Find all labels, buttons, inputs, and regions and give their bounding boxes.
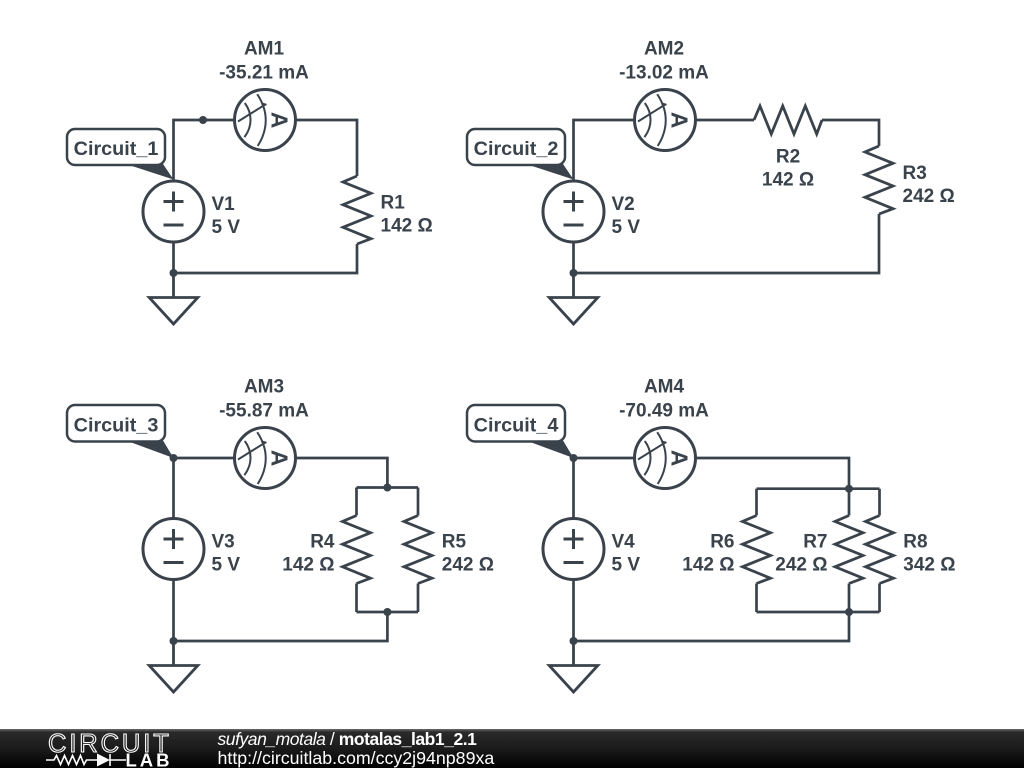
svg-text:LAB: LAB: [126, 750, 173, 768]
svg-text:http://circuitlab.com/ccy2j94n: http://circuitlab.com/ccy2j94np89xa: [218, 748, 495, 768]
svg-text:5 V: 5 V: [212, 555, 241, 576]
svg-text:R5: R5: [442, 532, 467, 553]
svg-text:sufyan_motala / motalas_lab1_2: sufyan_motala / motalas_lab1_2.1: [218, 729, 478, 749]
svg-text:Circuit_3: Circuit_3: [74, 415, 159, 437]
svg-text:V1: V1: [212, 194, 236, 215]
svg-text:R1: R1: [381, 193, 406, 214]
svg-text:V4: V4: [612, 532, 636, 553]
svg-text:R6: R6: [710, 532, 734, 553]
svg-text:V2: V2: [612, 194, 635, 215]
svg-text:-70.49 mA: -70.49 mA: [619, 401, 709, 422]
svg-text:R7: R7: [803, 532, 827, 553]
svg-text:242 Ω: 242 Ω: [903, 186, 955, 207]
svg-text:242 Ω: 242 Ω: [775, 555, 827, 576]
svg-text:AM1: AM1: [244, 39, 285, 60]
svg-text:R4: R4: [310, 532, 335, 553]
svg-text:-55.87 mA: -55.87 mA: [219, 401, 309, 422]
svg-text:142 Ω: 142 Ω: [682, 555, 734, 576]
svg-text:5 V: 5 V: [212, 217, 241, 238]
svg-text:142 Ω: 142 Ω: [381, 216, 433, 237]
svg-text:R3: R3: [903, 163, 927, 184]
svg-text:342 Ω: 342 Ω: [903, 555, 955, 576]
svg-text:-35.21 mA: -35.21 mA: [219, 63, 309, 84]
svg-text:AM4: AM4: [644, 377, 685, 398]
svg-text:V3: V3: [212, 532, 235, 553]
svg-text:5 V: 5 V: [612, 217, 641, 238]
svg-text:142 Ω: 142 Ω: [762, 170, 814, 191]
svg-text:Circuit_1: Circuit_1: [74, 138, 159, 160]
svg-text:AM3: AM3: [244, 377, 284, 398]
svg-text:R2: R2: [776, 147, 800, 168]
svg-text:142 Ω: 142 Ω: [282, 555, 334, 576]
svg-text:5 V: 5 V: [612, 555, 641, 576]
svg-text:242 Ω: 242 Ω: [442, 555, 494, 576]
svg-text:Circuit_4: Circuit_4: [474, 415, 559, 437]
svg-text:R8: R8: [903, 532, 927, 553]
svg-text:Circuit_2: Circuit_2: [474, 138, 559, 160]
svg-text:AM2: AM2: [644, 39, 684, 60]
svg-text:-13.02 mA: -13.02 mA: [619, 63, 709, 84]
